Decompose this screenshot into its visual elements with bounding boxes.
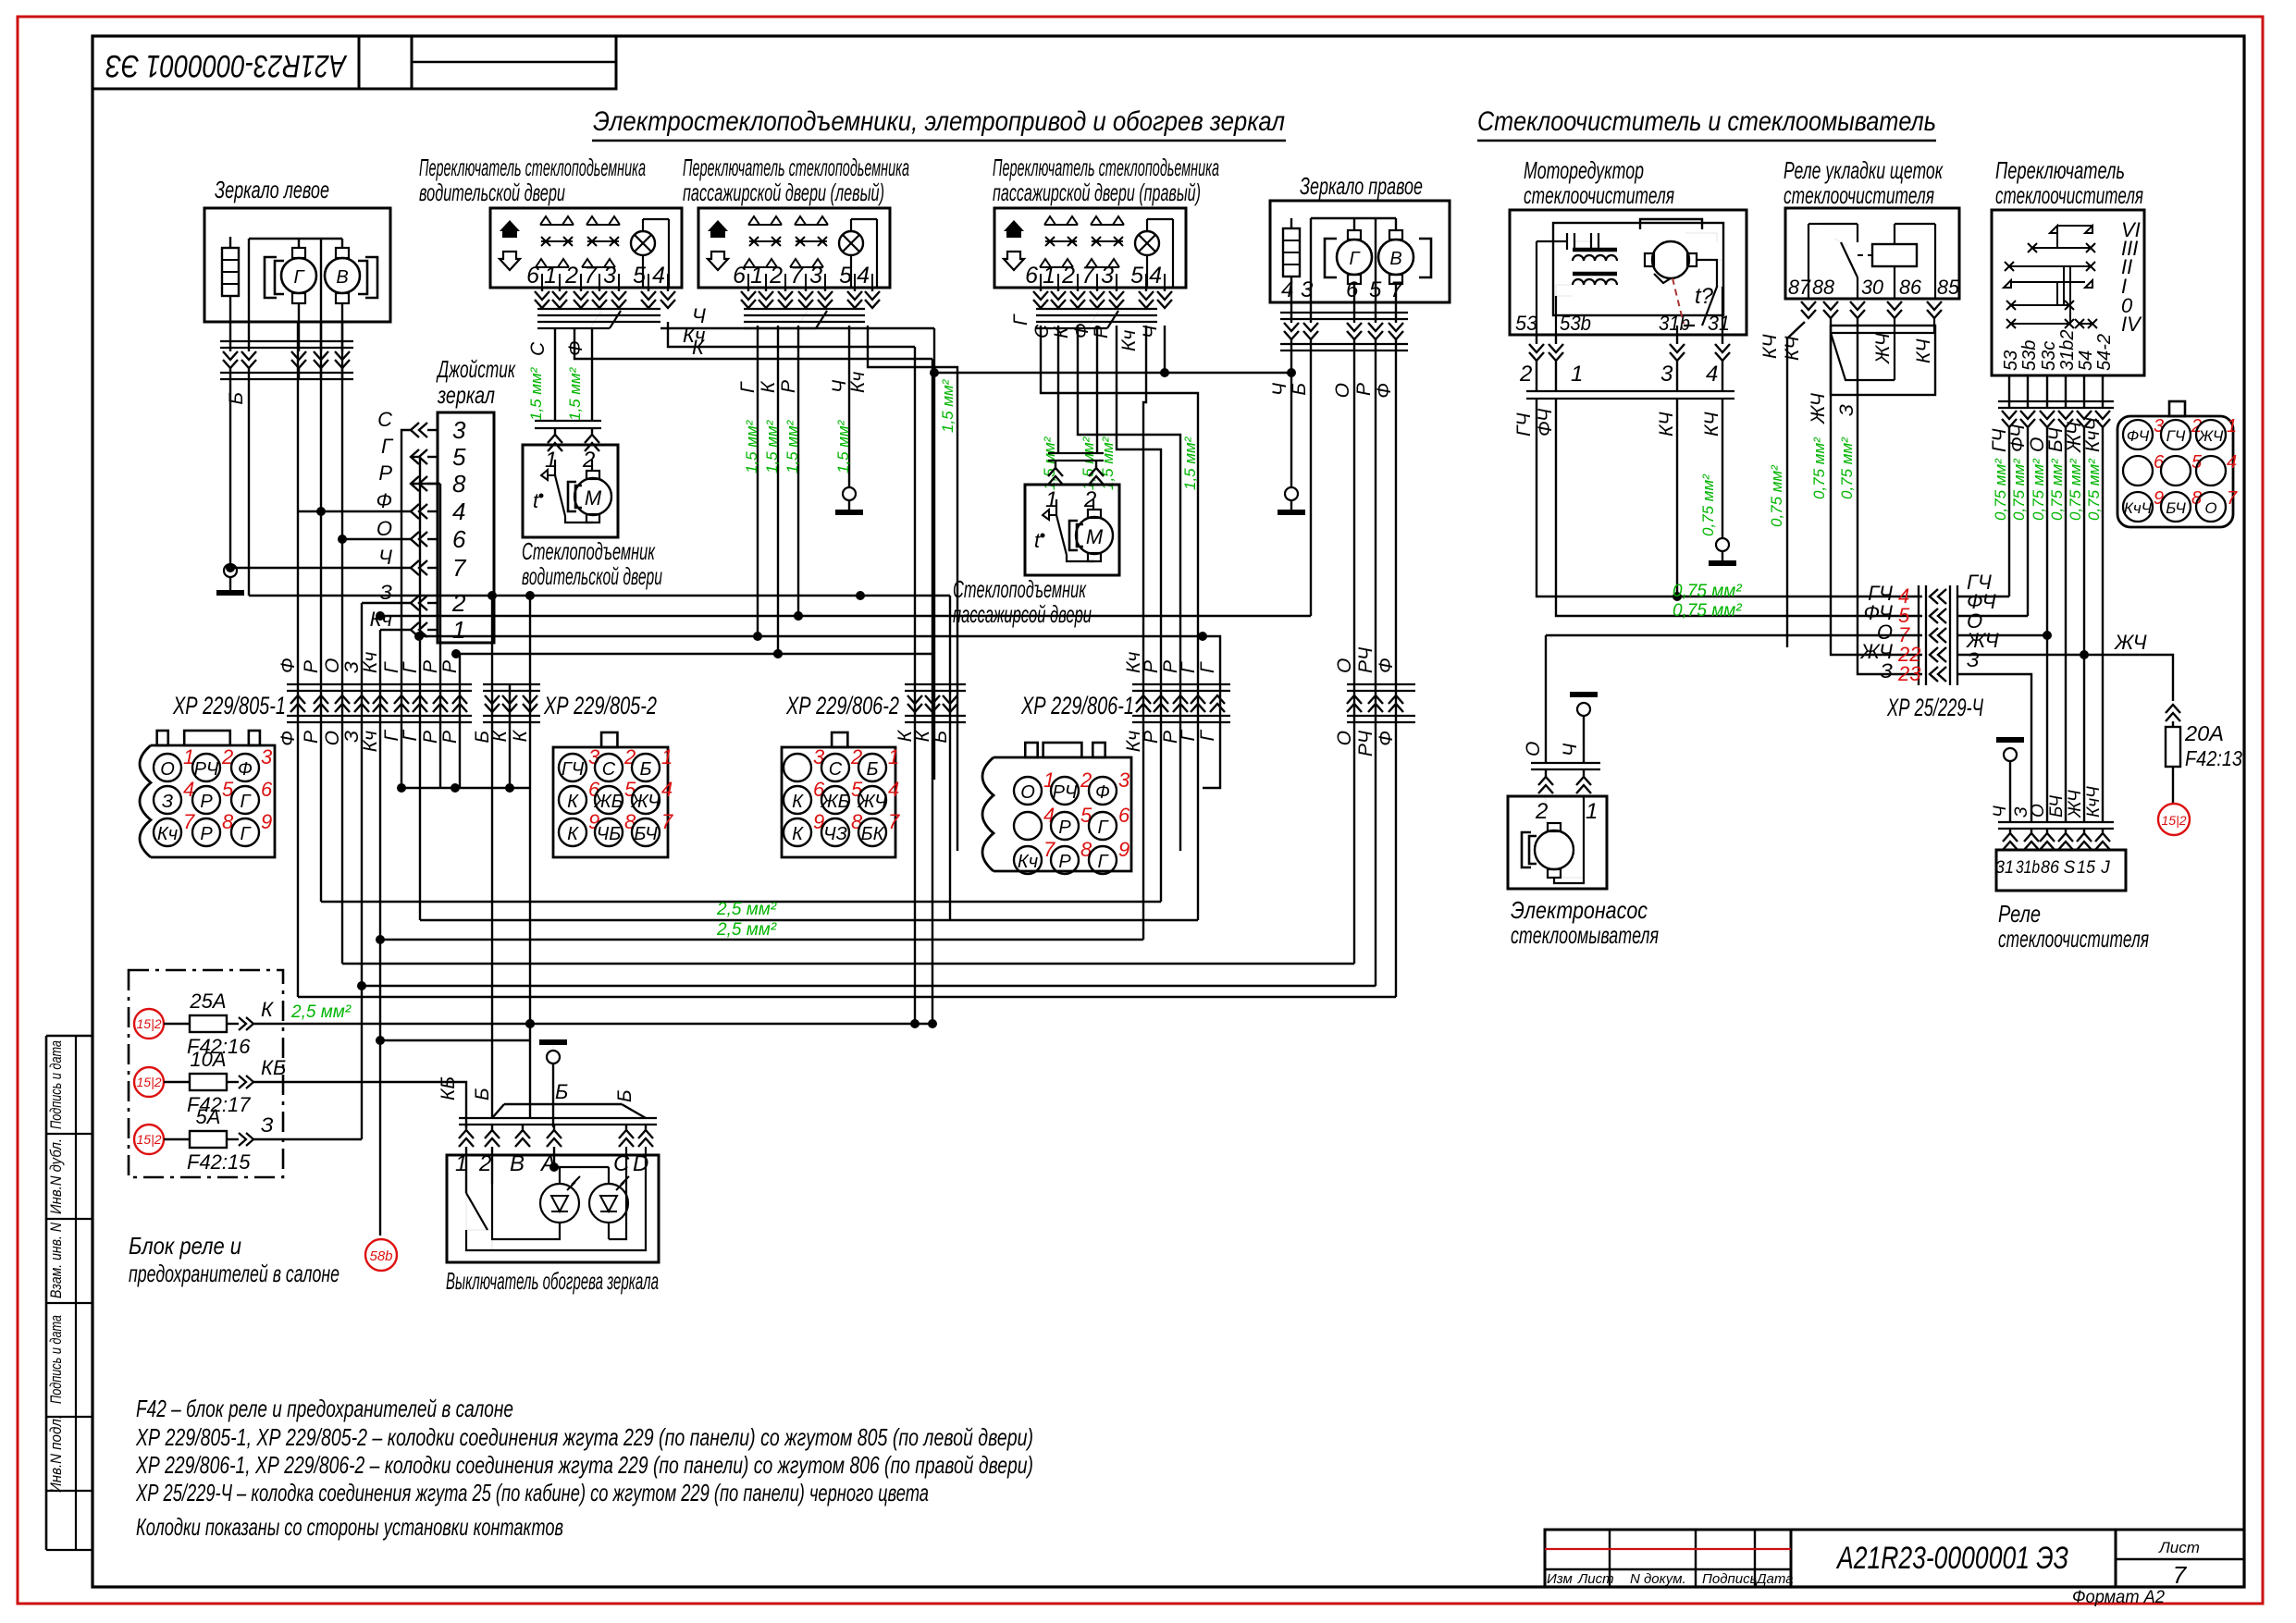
svg-text:Ч: Ч bbox=[378, 546, 392, 569]
wire net y688 bbox=[419, 635, 1203, 637]
connector pin 5 bbox=[595, 786, 623, 814]
svg-text:Электронасос: Электронасос bbox=[1511, 896, 1648, 924]
svg-text:О: О bbox=[322, 658, 343, 673]
svg-text:РЧ: РЧ bbox=[1355, 730, 1376, 756]
svg-text:9: 9 bbox=[261, 810, 272, 833]
svg-text:31b: 31b bbox=[1659, 312, 1690, 335]
wire net y975 bbox=[321, 901, 1161, 903]
connector pin 3 bbox=[231, 754, 259, 781]
mirror left internal bus bbox=[249, 238, 342, 240]
svg-text:2: 2 bbox=[1061, 263, 1075, 289]
wiper relay bus bbox=[1998, 821, 2114, 823]
svg-text:Взам. инв. N: Взам. инв. N bbox=[47, 1222, 65, 1298]
wire R1 vertical x476 bbox=[439, 484, 441, 788]
svg-text:Г: Г bbox=[1197, 729, 1218, 741]
splice 805-1 pin Р bbox=[314, 695, 328, 712]
svg-text:Р: Р bbox=[200, 824, 213, 844]
connector body bbox=[553, 747, 668, 857]
svg-text:Ф: Ф bbox=[376, 489, 393, 512]
connector pin 8 bbox=[192, 818, 220, 846]
svg-text:4: 4 bbox=[1149, 263, 1162, 289]
svg-text:Реле: Реле bbox=[1998, 900, 2041, 928]
wire O mirror right down bbox=[1353, 350, 1355, 964]
wiper switch pin arrow bbox=[2040, 411, 2055, 427]
mirror right ground wire bbox=[1290, 350, 1292, 487]
wiper motor chokes bbox=[1573, 255, 1617, 261]
wiper relay box bbox=[1996, 850, 2126, 891]
svg-text:58b: 58b bbox=[369, 1248, 392, 1264]
wire KchCh switch down bbox=[2102, 427, 2104, 822]
wire net y1066 bbox=[362, 985, 1376, 987]
wire B x532 down bbox=[491, 596, 493, 1118]
svg-text:31: 31 bbox=[1995, 858, 2014, 878]
svg-text:Р: Р bbox=[420, 731, 441, 744]
svg-text:53c: 53c bbox=[2039, 341, 2059, 371]
splice 805-2 pin К bbox=[523, 695, 537, 712]
svg-text:ХР 229/805-1, ХР 229/805-2 –: ХР 229/805-1, ХР 229/805-2 – колодки сое… bbox=[135, 1423, 1033, 1451]
svg-text:О: О bbox=[2204, 499, 2216, 517]
svg-text:М: М bbox=[585, 486, 602, 510]
relay pins bbox=[1808, 299, 1809, 305]
svg-text:2: 2 bbox=[769, 263, 783, 289]
svg-text:4: 4 bbox=[2227, 452, 2237, 473]
svg-text:2,5 мм²: 2,5 мм² bbox=[716, 900, 777, 919]
wire O switch down bbox=[2046, 427, 2048, 822]
ladder row О 7 bbox=[1930, 628, 1946, 643]
svg-text:4: 4 bbox=[1281, 277, 1293, 302]
wiper motor thermal dashed bbox=[1673, 278, 1684, 324]
connector pin 6 bbox=[784, 786, 811, 814]
connector 25/229 pin 5 bbox=[2161, 456, 2191, 486]
washer pump motor bbox=[1535, 830, 1574, 869]
svg-text:БЧ: БЧ bbox=[2047, 795, 2067, 818]
svg-text:З: З bbox=[1836, 404, 1858, 416]
wire Ch switch2 to ground bbox=[848, 326, 850, 487]
svg-text:2: 2 bbox=[564, 263, 578, 289]
svg-text:Ф: Ф bbox=[1376, 658, 1397, 673]
joystick row O wire bbox=[342, 538, 411, 540]
connector pin 6 bbox=[231, 786, 259, 814]
svg-text:Кч: Кч bbox=[360, 652, 381, 673]
wire Kch switch2 jog bbox=[868, 326, 957, 851]
wire GCh switch down bbox=[2008, 427, 2010, 596]
svg-text:О: О bbox=[322, 731, 343, 745]
svg-text:87: 87 bbox=[1788, 276, 1811, 299]
heater switch pin 1 bbox=[465, 1125, 467, 1130]
splice 805-1 pin О bbox=[335, 695, 350, 712]
svg-text:Б: Б bbox=[555, 1080, 568, 1103]
svg-text:Подпись: Подпись bbox=[1702, 1571, 1758, 1587]
connector 25/229 pin 7 bbox=[2196, 492, 2226, 522]
svg-text:Моторедуктор: Моторедуктор bbox=[1524, 156, 1644, 184]
wire Ch long net y403 bbox=[934, 372, 1291, 374]
svg-text:5: 5 bbox=[1369, 277, 1382, 302]
fuse F42:17 10А bbox=[134, 1067, 164, 1097]
svg-text:86: 86 bbox=[1899, 276, 1922, 299]
wire B x1027 down bbox=[949, 596, 951, 920]
svg-text:стеклоомывателя: стеклоомывателя bbox=[1511, 921, 1659, 949]
wire G switch3 jog bbox=[1041, 326, 1198, 920]
svg-text:ЖЧ: ЖЧ bbox=[2114, 631, 2147, 654]
washer pump pins bbox=[1545, 769, 1547, 777]
wire B mirror right down bbox=[1310, 350, 1312, 616]
wiper switch pin arrow bbox=[2020, 411, 2035, 427]
svg-text:7: 7 bbox=[452, 554, 467, 582]
connector pin 7 bbox=[1014, 846, 1042, 874]
svg-text:ЖЧ: ЖЧ bbox=[857, 792, 887, 812]
svg-text:F42:13: F42:13 bbox=[2185, 746, 2242, 770]
svg-text:0,75 мм²: 0,75 мм² bbox=[1673, 601, 1742, 621]
svg-text:Кч: Кч bbox=[1018, 852, 1038, 872]
svg-text:5: 5 bbox=[839, 263, 852, 289]
svg-text:Г: Г bbox=[381, 435, 394, 458]
heater switch LED1 bbox=[553, 1147, 555, 1167]
svg-text:Г: Г bbox=[400, 661, 421, 673]
wire K x573 down bbox=[529, 596, 531, 1118]
connector pin 2 bbox=[595, 754, 623, 781]
splice 806-1 right band bbox=[1347, 683, 1415, 685]
B bus above heater switch bbox=[504, 1103, 622, 1105]
wire O vertical x370 bbox=[341, 322, 343, 964]
svg-text:Стеклоподъемник: Стеклоподъемник bbox=[953, 575, 1087, 603]
wire G2 vertical x454 bbox=[419, 457, 421, 920]
svg-text:0,75 мм²: 0,75 мм² bbox=[1810, 436, 1828, 499]
svg-text:КчЧ: КчЧ bbox=[2124, 499, 2153, 517]
svg-text:53b: 53b bbox=[1560, 312, 1591, 335]
splice 806-1 right pin Ф bbox=[1389, 695, 1403, 712]
svg-text:пассажирской двери (левый): пассажирской двери (левый) bbox=[683, 178, 884, 206]
svg-text:Б: Б bbox=[614, 1089, 636, 1102]
svg-text:1,5 мм²: 1,5 мм² bbox=[743, 419, 760, 473]
svg-text:1: 1 bbox=[1571, 362, 1583, 387]
splice 806-1 right pin О bbox=[1347, 695, 1362, 712]
svg-text:5: 5 bbox=[452, 443, 466, 471]
connector 25/229 pin 1 bbox=[2196, 420, 2226, 449]
svg-text:ГЧ: ГЧ bbox=[562, 759, 585, 780]
mirror left brackets bbox=[265, 257, 277, 298]
svg-text:Изм: Изм bbox=[1547, 1571, 1573, 1587]
mirror left motor G bbox=[281, 258, 316, 293]
ladder row ФЧ 5 bbox=[1930, 609, 1946, 623]
wiper switch vertical bars bbox=[2056, 233, 2058, 248]
svg-text:8: 8 bbox=[452, 470, 466, 498]
wire 58b bbox=[379, 1040, 381, 1236]
wiper switch bus bbox=[1998, 400, 2114, 402]
svg-text:2: 2 bbox=[623, 745, 636, 768]
wire vertical x1010 bbox=[933, 328, 935, 780]
svg-text:зеркал: зеркал bbox=[437, 381, 495, 409]
svg-text:А21R23-0000001 ЭЗ: А21R23-0000001 ЭЗ bbox=[1835, 1541, 2068, 1576]
svg-text:БЧ: БЧ bbox=[634, 824, 658, 844]
connector pin 1 bbox=[858, 754, 886, 781]
mirror left motor V bbox=[325, 258, 360, 293]
svg-text:0,75 мм²: 0,75 мм² bbox=[2067, 458, 2084, 521]
splice XP229/805-1 band bbox=[287, 683, 472, 685]
svg-text:Выключатель обогрева зеркала: Выключатель обогрева зеркала bbox=[446, 1267, 659, 1295]
svg-text:предохранителей в салоне: предохранителей в салоне bbox=[129, 1260, 339, 1287]
svg-text:Г: Г bbox=[1178, 729, 1199, 741]
svg-text:З: З bbox=[1880, 659, 1893, 682]
wire B long net y644 bbox=[249, 595, 950, 596]
wiper switch pin arrow bbox=[2077, 411, 2092, 427]
window lifter driver door box bbox=[523, 445, 618, 537]
svg-text:ЧЗ: ЧЗ bbox=[823, 824, 847, 844]
splice 806-2 pin Б bbox=[943, 695, 957, 712]
svg-text:0,75 мм²: 0,75 мм² bbox=[1838, 436, 1856, 499]
svg-text:КБ: КБ bbox=[438, 1076, 459, 1100]
wire Kch switch3 jog bbox=[1143, 326, 1146, 940]
heater switch box bbox=[447, 1155, 659, 1262]
fuse F42:16 25А bbox=[134, 1009, 164, 1039]
svg-text:Ч: Ч bbox=[1560, 743, 1581, 756]
svg-text:Зеркало правое: Зеркало правое bbox=[1300, 172, 1423, 200]
svg-text:54: 54 bbox=[2076, 350, 2096, 371]
svg-text:Р: Р bbox=[200, 792, 213, 812]
wire BCh switch down bbox=[2065, 427, 2067, 822]
splice 805-1 pin Кч bbox=[373, 695, 388, 712]
svg-text:3: 3 bbox=[603, 263, 616, 289]
washer pump bus bbox=[1531, 762, 1600, 764]
svg-text:А21R23-0000001 ЭЗ: А21R23-0000001 ЭЗ bbox=[105, 48, 348, 83]
heater switch internal wires bbox=[554, 1167, 560, 1184]
svg-text:5А: 5А bbox=[196, 1105, 221, 1128]
wire K x989 down bbox=[914, 347, 916, 1024]
svg-text:5: 5 bbox=[1080, 804, 1092, 827]
connector pin 7 bbox=[154, 818, 181, 846]
circle 58b bbox=[365, 1239, 397, 1271]
svg-text:85: 85 bbox=[1937, 276, 1960, 299]
svg-text:ЖЧ: ЖЧ bbox=[2066, 790, 2085, 818]
svg-text:Г: Г bbox=[1197, 661, 1218, 673]
svg-text:15|2: 15|2 bbox=[137, 1075, 162, 1089]
svg-text:Ф: Ф bbox=[1376, 731, 1397, 746]
joystick row Z wire bbox=[362, 602, 411, 604]
svg-text:К: К bbox=[567, 792, 579, 812]
svg-text:2,5 мм²: 2,5 мм² bbox=[290, 1002, 352, 1022]
svg-text:7: 7 bbox=[661, 810, 673, 833]
svg-text:Электростеклоподъемники, элет: Электростеклоподъемники, элетропривод и … bbox=[593, 106, 1285, 137]
svg-text:З: З bbox=[261, 1113, 274, 1137]
svg-text:С: С bbox=[527, 341, 549, 356]
wire net y1082 bbox=[298, 996, 1396, 998]
svg-text:стеклоочистителя: стеклоочистителя bbox=[1524, 181, 1674, 209]
lifter2 thermal switch bbox=[1043, 510, 1049, 520]
svg-text:Ф: Ф bbox=[238, 759, 253, 780]
svg-text:В: В bbox=[1389, 249, 1401, 269]
svg-text:7: 7 bbox=[2227, 488, 2238, 509]
svg-text:Стеклоочиститель и стеклоомы: Стеклоочиститель и стеклоомыватель bbox=[1477, 106, 1936, 137]
svg-text:9: 9 bbox=[1118, 838, 1129, 861]
svg-text:7: 7 bbox=[2173, 1561, 2188, 1589]
relay brush park box bbox=[1785, 208, 1959, 299]
splice 806-1 left pin Г bbox=[1191, 695, 1205, 712]
svg-text:Реле укладки щеток: Реле укладки щеток bbox=[1784, 156, 1944, 184]
svg-text:N докум.: N докум. bbox=[1630, 1571, 1686, 1587]
wire net y1042 bbox=[342, 963, 1354, 965]
svg-text:1: 1 bbox=[888, 745, 899, 768]
svg-text:Дата: Дата bbox=[1755, 1571, 1794, 1587]
wire Kch vertical x411 bbox=[379, 630, 381, 1236]
wire R2 vertical x497 bbox=[459, 654, 461, 788]
wire K switch3 jog bbox=[1078, 326, 1180, 851]
wiper motor bracket bbox=[1640, 219, 1702, 229]
svg-text:1,5 мм²: 1,5 мм² bbox=[834, 419, 852, 473]
lifter1 bus bbox=[535, 420, 601, 422]
connector pin 1 bbox=[154, 754, 181, 781]
lifter1 thermal switch bbox=[541, 470, 548, 480]
svg-text:0,75 мм²: 0,75 мм² bbox=[1673, 582, 1742, 601]
svg-text:4: 4 bbox=[452, 498, 465, 525]
svg-text:Б: Б bbox=[639, 759, 651, 780]
connector pin 9 bbox=[1089, 846, 1117, 874]
junction bar y852 bbox=[401, 787, 530, 789]
svg-text:КБ: КБ bbox=[261, 1056, 286, 1079]
svg-text:Р: Р bbox=[1058, 852, 1071, 872]
svg-text:О: О bbox=[1334, 658, 1355, 673]
wire K net switch1 to right bbox=[574, 328, 932, 359]
connector pin 1 bbox=[632, 754, 660, 781]
svg-text:Подпись и дата: Подпись и дата bbox=[47, 1315, 65, 1404]
wire K switch2 down bbox=[777, 326, 779, 654]
svg-text:Р: Р bbox=[439, 731, 461, 744]
connector pin 5 bbox=[821, 786, 849, 814]
mirror left heater element bbox=[222, 248, 239, 296]
svg-text:4: 4 bbox=[1043, 804, 1055, 827]
connector pin 5 bbox=[1051, 812, 1079, 840]
svg-text:ХР 229/805-2: ХР 229/805-2 bbox=[543, 692, 657, 719]
svg-text:З: З bbox=[1967, 648, 1980, 671]
svg-text:ЖЧ: ЖЧ bbox=[630, 792, 660, 812]
splice 805-1 pin Г bbox=[413, 695, 427, 712]
relay splice box bbox=[1831, 326, 1935, 395]
svg-text:31b2: 31b2 bbox=[2057, 330, 2078, 372]
wire G1 vertical x434 bbox=[401, 457, 402, 788]
wire C from switch1 bbox=[554, 328, 556, 421]
svg-text:С: С bbox=[1031, 324, 1053, 338]
svg-text:ЖБ: ЖБ bbox=[820, 792, 849, 812]
splice 805-2 pin Б bbox=[485, 695, 500, 712]
svg-text:стеклоочистителя: стеклоочистителя bbox=[1784, 181, 1934, 209]
connector pin 2 bbox=[821, 754, 849, 781]
svg-text:ЖЧ: ЖЧ bbox=[1808, 392, 1829, 424]
svg-text:ГЧ: ГЧ bbox=[1513, 412, 1535, 436]
svg-text:Р: Р bbox=[1141, 731, 1162, 744]
svg-text:Кч: Кч bbox=[1118, 330, 1140, 351]
svg-text:1,5 мм²: 1,5 мм² bbox=[1181, 436, 1199, 490]
svg-text:Ф: Ф bbox=[565, 340, 586, 356]
svg-text:3: 3 bbox=[261, 745, 273, 768]
splice 806-2 pin К bbox=[925, 695, 940, 712]
heater switch LED2 bbox=[589, 1184, 628, 1223]
svg-text:Зеркало левое: Зеркало левое bbox=[215, 176, 329, 203]
splice 806-1 right pin РЧ bbox=[1368, 695, 1383, 712]
wiper motor pins bbox=[1536, 335, 1537, 344]
svg-text:Лист: Лист bbox=[2158, 1539, 2200, 1556]
svg-text:Г: Г bbox=[737, 381, 759, 393]
svg-text:2: 2 bbox=[582, 448, 595, 473]
svg-text:15|2: 15|2 bbox=[137, 1132, 162, 1147]
svg-text:КЧ: КЧ bbox=[1759, 334, 1781, 359]
connector XP25/229-Ch bbox=[2117, 416, 2233, 527]
svg-text:К: К bbox=[792, 824, 804, 844]
wire R switch2 down bbox=[797, 326, 799, 616]
connector pin 6 bbox=[1089, 812, 1117, 840]
svg-text:О: О bbox=[376, 517, 392, 540]
wire F switch3 to lifter2 bbox=[1096, 326, 1098, 453]
svg-text:6: 6 bbox=[261, 778, 273, 801]
lifter1 motor bbox=[574, 478, 611, 515]
splice 805-1 pin Ф bbox=[290, 695, 305, 712]
wire net y1016 bbox=[380, 939, 1143, 941]
svg-text:86: 86 bbox=[2041, 858, 2059, 878]
svg-text:Ф: Ф bbox=[278, 658, 299, 673]
svg-text:ХР 229/806-1: ХР 229/806-1 bbox=[1020, 692, 1134, 719]
wire Ch relay ground bbox=[1996, 737, 2024, 743]
svg-text:КЧ: КЧ bbox=[1656, 412, 1677, 436]
wiper switch pin arrow bbox=[2002, 411, 2017, 427]
svg-text:Г: Г bbox=[1010, 314, 1031, 326]
svg-text:Б: Б bbox=[866, 759, 878, 780]
circle 15/2 right bbox=[2158, 804, 2190, 835]
wire Z fuse net bbox=[253, 1138, 362, 1140]
svg-text:Стеклоподъемник: Стеклоподъемник bbox=[522, 537, 656, 565]
svg-text:С: С bbox=[829, 759, 843, 780]
svg-text:РЧ: РЧ bbox=[1355, 646, 1376, 673]
splice XP229/806-1 band bbox=[1132, 683, 1230, 685]
connector pin 2 bbox=[1051, 777, 1079, 805]
svg-text:t: t bbox=[533, 489, 539, 512]
svg-text:КчЧ: КчЧ bbox=[2082, 417, 2104, 452]
heater switch pin А bbox=[553, 1125, 555, 1130]
wire net y995 bbox=[420, 919, 1198, 921]
ladder row ЖЧ 22 bbox=[1930, 647, 1946, 662]
wiper switch pin arrow bbox=[2095, 411, 2110, 427]
svg-text:Ч: Ч bbox=[1140, 325, 1161, 338]
connector pin 3 bbox=[559, 754, 586, 781]
wire FCh motor to ladder bbox=[1556, 399, 1922, 616]
title block bbox=[1545, 1530, 2244, 1587]
wire R mirror right down bbox=[1375, 350, 1376, 986]
wiper motor internal drops bbox=[1536, 241, 1537, 335]
wire KCh motor down bbox=[1676, 399, 1678, 596]
svg-text:Ч: Ч bbox=[1269, 382, 1290, 396]
connector body bbox=[151, 745, 275, 857]
svg-text:0,75 мм²: 0,75 мм² bbox=[1699, 473, 1717, 536]
svg-text:2: 2 bbox=[451, 589, 466, 617]
splice 805-2 pin К bbox=[502, 695, 517, 712]
svg-text:S: S bbox=[2064, 858, 2076, 878]
svg-text:водительской двери: водительской двери bbox=[419, 178, 565, 206]
mirror right box bbox=[1270, 201, 1450, 302]
svg-text:1,5 мм²: 1,5 мм² bbox=[784, 419, 801, 473]
svg-text:Кч: Кч bbox=[360, 731, 381, 752]
svg-text:4: 4 bbox=[1706, 362, 1718, 387]
title block red revision line bbox=[1545, 1548, 1791, 1550]
svg-text:ЖЧ: ЖЧ bbox=[1872, 332, 1894, 364]
svg-text:3: 3 bbox=[1660, 362, 1673, 387]
svg-text:2,5 мм²: 2,5 мм² bbox=[716, 920, 777, 940]
wire ZhCh relay to ladder bbox=[1831, 395, 1922, 655]
svg-text:Инв.N дубл.: Инв.N дубл. bbox=[47, 1138, 65, 1214]
svg-text:6: 6 bbox=[452, 525, 466, 553]
svg-text:Колодки показаны со стороны: Колодки показаны со стороны установки ко… bbox=[136, 1513, 563, 1541]
connector pin 3 bbox=[1089, 777, 1117, 805]
splice 806-1 left pin Р bbox=[1154, 695, 1168, 712]
wire R vertical x347 bbox=[320, 322, 322, 902]
svg-text:3: 3 bbox=[809, 263, 822, 289]
splice XP229/806-2 band bbox=[905, 683, 966, 685]
joystick row Kch wire bbox=[380, 629, 411, 631]
